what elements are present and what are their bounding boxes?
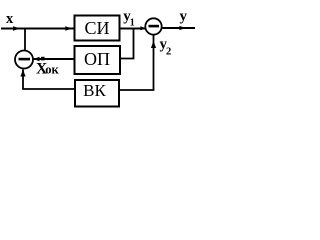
svg-text:x: x: [6, 11, 14, 27]
wire: VK right to y2 riser: [119, 89, 154, 91]
summator S2 (right circle with minus): [145, 18, 161, 34]
svg-text:СИ: СИ: [84, 18, 109, 38]
block VK: [75, 80, 119, 107]
svg-text:y: y: [180, 9, 188, 25]
node: junction square on Xok line: [41, 57, 45, 61]
block OP: [75, 46, 121, 74]
wire: y output line: [162, 27, 195, 29]
node: arrowhead into S2 left: [140, 26, 145, 30]
node: arrowhead into S1 right: [33, 57, 39, 61]
wire: y2 vertical from VK loop up into S2: [153, 35, 155, 90]
block CI: [75, 16, 120, 41]
svg-text:1: 1: [130, 17, 135, 28]
svg-text:ВК: ВК: [83, 81, 106, 100]
svg-text:2: 2: [166, 47, 171, 58]
svg-text:ОП: ОП: [84, 49, 110, 69]
minus sign in S1: [19, 58, 31, 61]
node: arrowhead up into S1 bottom: [20, 70, 25, 77]
wire: x input line: [1, 28, 75, 30]
minus sign in S2: [149, 25, 160, 28]
summator S1 (left circle with minus): [15, 51, 33, 69]
wire: Xok line from OP to S1: [34, 58, 75, 60]
node: arrowhead into CI block: [65, 26, 72, 30]
wire: branch from y1 down to OP right input: [120, 29, 134, 59]
wire: y1 line from CI to summator 2: [120, 28, 147, 30]
wire: branch down from x line to summator 1: [24, 29, 26, 51]
node: arrowhead on y output: [179, 26, 186, 30]
svg-text:ок: ок: [45, 62, 59, 76]
node: arrowhead y2 up: [151, 41, 156, 48]
wire: VK left feedback loop to S1 bottom: [23, 70, 75, 90]
node: arrowhead on x input: [13, 26, 21, 30]
